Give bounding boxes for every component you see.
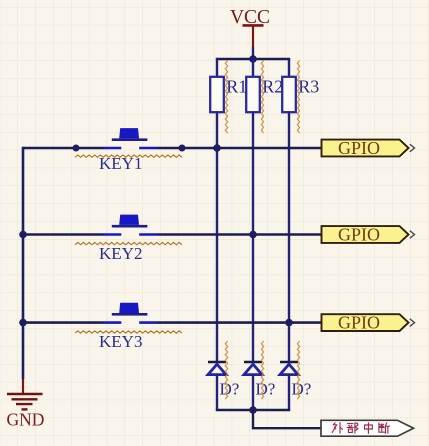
diode D2: [244, 362, 275, 399]
switch KEY2 button cap: [112, 215, 148, 228]
svg-text:D?: D?: [292, 380, 312, 399]
node bus/KEY3 junction: [19, 319, 27, 327]
resistor R1: [210, 77, 247, 113]
squiggle marker at R3: [297, 61, 299, 134]
svg-text:KEY2: KEY2: [99, 244, 142, 263]
port GPIO 1: [322, 138, 415, 158]
wire KEY1 row left segment: [23, 147, 104, 150]
svg-text:R2: R2: [262, 77, 283, 97]
wire KEY2 row right segment: [157, 233, 322, 236]
wire top branch: [216, 58, 290, 61]
switch KEY3 contact leads: [104, 321, 121, 324]
diode D1: [208, 362, 239, 399]
wire bottom bus: [216, 409, 290, 412]
node R1/KEY1 junction: [213, 144, 221, 152]
svg-text:D?: D?: [220, 380, 240, 399]
wire branch to R3: [288, 59, 290, 78]
wire to interrupt port: [253, 410, 321, 428]
squiggle under KEY2: [75, 242, 182, 244]
node bus/KEY2 junction: [19, 231, 27, 239]
wire R2 column down to diode: [252, 112, 254, 362]
node R2/KEY2 junction: [249, 231, 257, 239]
svg-text:R3: R3: [298, 77, 319, 97]
svg-text:GPIO: GPIO: [338, 138, 380, 158]
switch KEY1 contact leads: [104, 147, 121, 150]
resistor R2: [246, 77, 283, 113]
svg-text:KEY1: KEY1: [99, 154, 142, 173]
port GPIO 2: [322, 225, 415, 245]
svg-text:KEY3: KEY3: [99, 332, 142, 351]
squiggle under KEY3: [75, 331, 182, 333]
node VCC junction: [249, 55, 257, 63]
wire diode D2 to bottom bus: [252, 375, 254, 410]
wire R1 column down to diode: [216, 112, 218, 362]
wire KEY2 row left segment: [23, 233, 104, 236]
wire KEY1 row right segment: [157, 147, 322, 150]
power symbol VCC: [230, 7, 270, 47]
squiggle marker at D3: [297, 341, 299, 399]
wire diode D1 to bottom bus: [216, 375, 218, 410]
wire branch to R2: [252, 59, 254, 78]
port external interrupt (wai bu zhong duan): [321, 420, 414, 436]
svg-text:GPIO: GPIO: [338, 225, 380, 245]
switch KEY1 button cap: [112, 128, 148, 141]
node R3/KEY3 junction: [285, 319, 293, 327]
switch KEY1 terminal dots: [73, 145, 186, 152]
svg-text:R1: R1: [226, 77, 247, 97]
port GPIO 3: [322, 313, 415, 333]
wire KEY3 row right segment: [157, 321, 322, 324]
squiggle under KEY1: [75, 155, 182, 157]
svg-text:GND: GND: [7, 410, 45, 430]
squiggle marker at R2: [261, 61, 263, 134]
wire left bus: [22, 147, 25, 379]
svg-text:D?: D?: [256, 380, 276, 399]
squiggle marker at D2: [261, 341, 263, 399]
node bottom junction: [249, 406, 257, 414]
switch KEY3 button cap: [112, 303, 148, 316]
squiggle marker at R1: [225, 61, 227, 134]
wire VCC stub: [252, 47, 254, 59]
wire diode D3 to bottom bus: [288, 375, 290, 410]
wire KEY3 row left segment: [23, 321, 104, 324]
wire branch to R1: [216, 59, 218, 78]
ground GND: [7, 379, 45, 430]
svg-text:GPIO: GPIO: [338, 313, 380, 333]
switch KEY2 contact leads: [104, 233, 121, 236]
squiggle marker at D1: [225, 341, 227, 399]
wire R3 column down to diode: [288, 112, 290, 362]
diode D3: [280, 362, 311, 399]
resistor R3: [282, 77, 319, 113]
